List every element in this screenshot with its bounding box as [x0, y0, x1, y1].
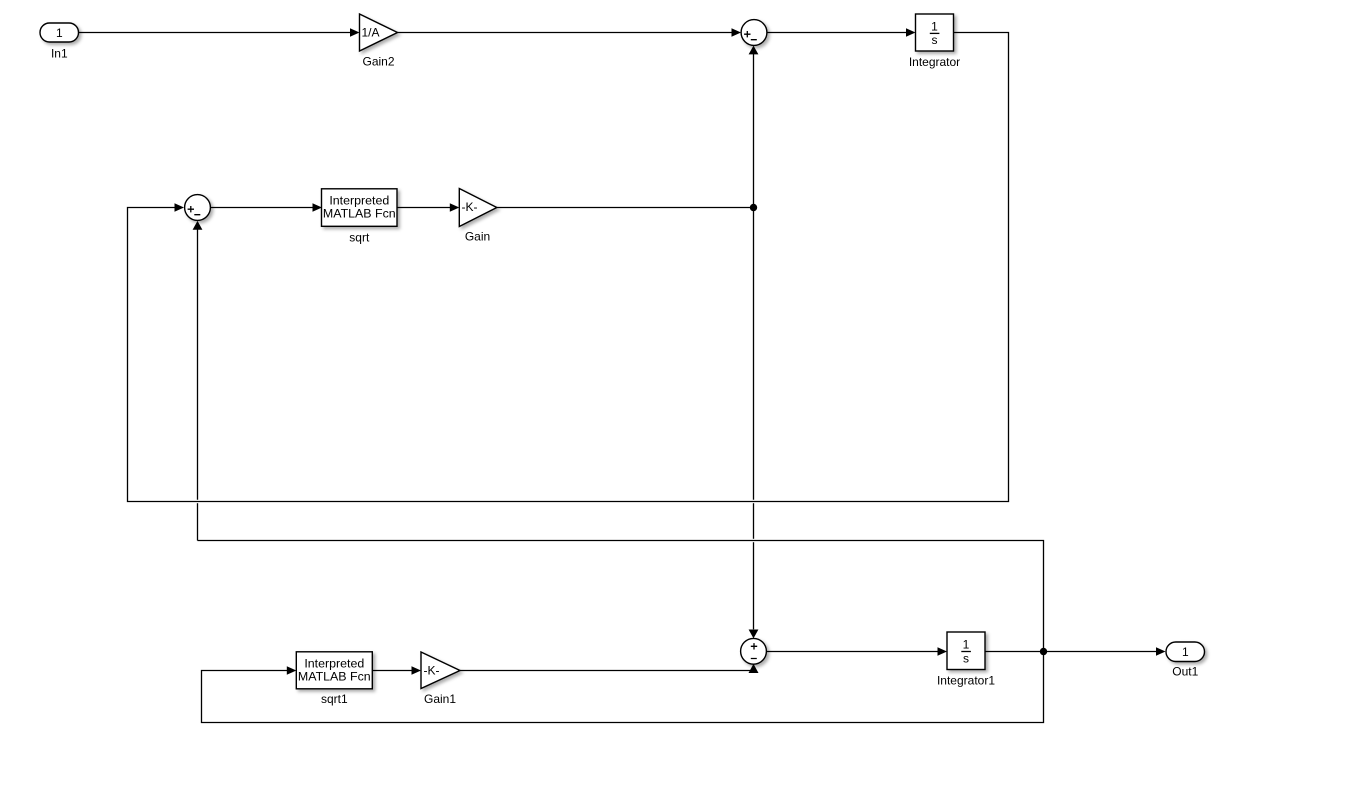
- svg-text:1: 1: [56, 26, 63, 40]
- svg-text:Gain: Gain: [465, 230, 490, 244]
- wire Sum2 to sqrt: [210, 207, 312, 209]
- integrator Integrator: [916, 14, 954, 51]
- svg-text:Integrator: Integrator: [909, 55, 960, 69]
- svg-text:-K-: -K-: [462, 200, 478, 214]
- wire feedback Integrator1 down to sqrt1 input: [202, 652, 1044, 723]
- wire vertical main up to Sum1 minus input: [753, 54, 755, 208]
- junction dot A: [750, 204, 757, 211]
- junction dot B: [1040, 648, 1047, 655]
- wire Integrator1 to Out1: [986, 651, 1157, 653]
- gain Gain: [459, 189, 497, 227]
- svg-text:Out1: Out1: [1172, 665, 1198, 679]
- svg-text:sqrt: sqrt: [349, 230, 370, 244]
- wire Integrator feedback to Sum2: [128, 33, 1009, 502]
- outport Out1: [1166, 642, 1205, 662]
- wire Sum1 to Integrator: [767, 32, 906, 34]
- gain Gain2: [360, 14, 398, 51]
- wire In1 to Gain2: [79, 32, 351, 34]
- block sqrt1 (Interpreted MATLAB Fcn): [296, 652, 372, 689]
- svg-text:Gain1: Gain1: [424, 692, 456, 706]
- svg-text:MATLAB Fcn: MATLAB Fcn: [323, 206, 396, 220]
- svg-text:Integrator1: Integrator1: [937, 674, 995, 688]
- block sqrt (Interpreted MATLAB Fcn): [322, 189, 398, 227]
- inport In1: [40, 23, 79, 42]
- svg-text:sqrt1: sqrt1: [321, 692, 348, 706]
- sum Sum3: [741, 638, 767, 664]
- sum Sum2: [185, 195, 211, 221]
- gain Gain1: [421, 652, 460, 689]
- svg-text:In1: In1: [51, 46, 68, 60]
- svg-text:Interpreted: Interpreted: [304, 656, 364, 670]
- svg-text:MATLAB Fcn: MATLAB Fcn: [298, 669, 371, 683]
- wire sqrt1 to Gain1: [373, 670, 412, 672]
- wire Gain1 to Sum3 minus input: [460, 664, 754, 671]
- wire Gain2 to Sum1: [398, 32, 732, 34]
- wire sqrt to Gain: [397, 207, 450, 209]
- integrator Integrator1: [947, 632, 985, 670]
- sum Sum1: [741, 20, 767, 46]
- svg-text:1: 1: [1182, 645, 1189, 659]
- wire Gain to junction: [497, 207, 754, 209]
- svg-text:1/A: 1/A: [362, 26, 380, 40]
- svg-text:1: 1: [963, 638, 970, 652]
- wire feedback Integrator1 up to Sum2 bottom input: [198, 541, 1044, 652]
- svg-text:1: 1: [931, 20, 938, 34]
- svg-text:s: s: [963, 651, 969, 665]
- wire vertical main down to Sum3 plus input: [753, 208, 755, 500]
- svg-text:s: s: [932, 33, 938, 47]
- wire Sum3 to Integrator1: [766, 651, 937, 653]
- svg-text:Gain2: Gain2: [362, 54, 394, 68]
- svg-text:-K-: -K-: [424, 663, 440, 677]
- svg-text:Interpreted: Interpreted: [329, 193, 389, 207]
